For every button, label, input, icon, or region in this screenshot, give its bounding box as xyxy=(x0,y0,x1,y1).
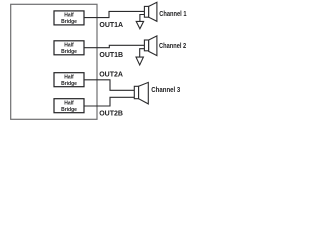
svg-text:OUT2B: OUT2B xyxy=(99,111,123,118)
ground symbol ch1 xyxy=(136,21,143,28)
svg-text:OUT2A: OUT2A xyxy=(99,71,123,78)
half-bridge U3 xyxy=(54,73,84,87)
svg-text:Bridge: Bridge xyxy=(61,107,77,113)
svg-text:Channel 2: Channel 2 xyxy=(159,41,186,50)
svg-text:Channel 1: Channel 1 xyxy=(159,9,186,18)
wire OUT2B xyxy=(84,97,134,106)
half-bridge U2 xyxy=(54,41,84,55)
svg-text:OUT1B: OUT1B xyxy=(99,52,123,59)
half-bridge U1 xyxy=(54,11,84,25)
svg-text:Channel 3: Channel 3 xyxy=(151,85,180,94)
wire OUT2A xyxy=(84,80,134,91)
half-bridge U4 xyxy=(54,99,84,113)
ground wire ch1 xyxy=(140,15,145,22)
svg-text:Bridge: Bridge xyxy=(61,81,77,87)
svg-text:Half: Half xyxy=(64,13,74,19)
svg-text:OUT1A: OUT1A xyxy=(99,22,123,29)
svg-text:Bridge: Bridge xyxy=(61,19,77,25)
svg-text:Half: Half xyxy=(64,101,74,107)
svg-text:Bridge: Bridge xyxy=(61,49,77,55)
svg-text:Half: Half xyxy=(64,43,74,49)
speaker LS3 xyxy=(134,82,148,104)
wire OUT1B xyxy=(84,45,144,47)
speaker LS1 xyxy=(144,2,157,21)
svg-text:Half: Half xyxy=(64,75,74,81)
IC outline (amplifier block) xyxy=(11,4,97,119)
speaker LS2 xyxy=(144,36,157,56)
ground wire ch2 xyxy=(140,49,145,57)
ground symbol ch2 xyxy=(136,57,143,65)
wire OUT1A xyxy=(84,11,144,17)
